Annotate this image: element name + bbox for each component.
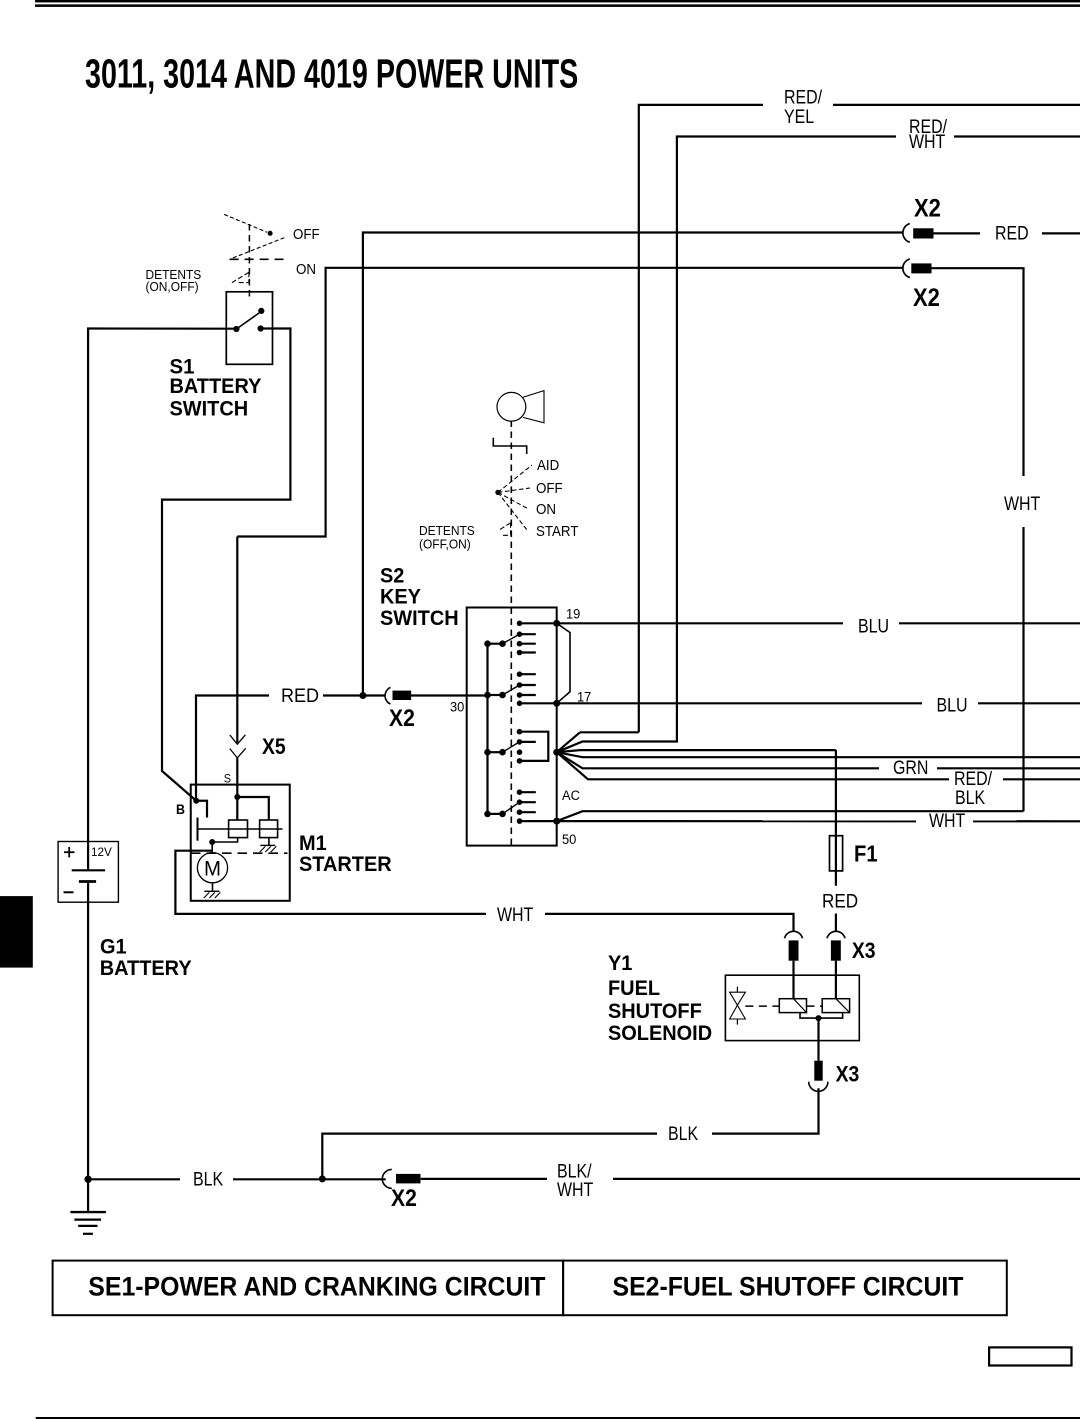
- node: RED junction: [359, 692, 366, 699]
- label BLK (bottom): [180, 1168, 233, 1190]
- page top double rule: [35, 0, 1080, 7]
- solenoid Y1 box: [725, 975, 859, 1040]
- label WHT (mid): [486, 904, 545, 926]
- wire: solenoid output U: [800, 1013, 843, 1019]
- svg-text:SWITCH: SWITCH: [380, 607, 459, 631]
- node: solenoid junction: [816, 1015, 822, 1021]
- node S: [234, 794, 240, 800]
- svg-text:X2: X2: [389, 705, 415, 732]
- wire: GRN: [557, 752, 1080, 768]
- node: 50 junction: [553, 818, 560, 825]
- wire: node to motor: [211, 842, 213, 852]
- node 19: [553, 620, 560, 627]
- key switch S2 box: [467, 608, 557, 846]
- S2 pins group 1: [517, 621, 536, 656]
- svg-text:X5: X5: [262, 735, 286, 759]
- label BLU (17): [922, 694, 978, 716]
- solenoid coil A: [779, 999, 806, 1013]
- S2 pins group 4: [517, 789, 536, 823]
- wire: coil1 to motor node: [212, 838, 237, 842]
- contact bus: [198, 828, 283, 830]
- svg-text:B: B: [176, 802, 185, 818]
- svg-text:AC: AC: [562, 788, 580, 804]
- label DETENTS (OFF,ON): [419, 524, 475, 552]
- svg-text:SE1-POWER AND CRANKING CIRCUIT: SE1-POWER AND CRANKING CIRCUIT: [88, 1273, 545, 1302]
- label M1 STARTER: [299, 832, 392, 877]
- wire: RED/YEL: [557, 105, 1080, 752]
- svg-text:G1: G1: [100, 935, 127, 959]
- svg-text:SHUTOFF: SHUTOFF: [608, 1000, 702, 1024]
- ground: [70, 1212, 106, 1234]
- S2 dashed stem: [510, 421, 512, 846]
- wire: RED mid to key switch 30: [196, 696, 488, 801]
- node: motor junction: [209, 839, 215, 845]
- label RED/WHT: [896, 116, 954, 153]
- connector X5 chevrons: [230, 735, 246, 758]
- node: BLK junction: [319, 1175, 326, 1182]
- wire: 50 diagonal riser: [557, 811, 1024, 821]
- connector X3 (right): [827, 931, 845, 960]
- wire: S to coils: [237, 797, 268, 820]
- fuse F1: [830, 836, 843, 871]
- wire: RED top right of X2: [934, 232, 1080, 234]
- wire: solenoid down to X3: [817, 1018, 819, 1061]
- S1 contacts: [233, 308, 264, 332]
- label GRN: [879, 757, 937, 779]
- connector X2 (RED top): [903, 224, 934, 243]
- svg-text:FUEL: FUEL: [608, 977, 660, 1001]
- svg-text:(OFF,ON): (OFF,ON): [419, 537, 471, 552]
- page bottom rule: [36, 1417, 1080, 1419]
- label BLK (solenoid): [657, 1123, 712, 1145]
- S2 detent fan: [495, 465, 532, 535]
- wire: 17/BLU: [520, 702, 1080, 704]
- wire: WHT right of X2 down right side: [931, 268, 1023, 811]
- contact plate: [197, 818, 199, 841]
- wire: RED top (to X2): [363, 233, 904, 696]
- black margin block: [0, 896, 33, 968]
- label WHT (right vertical): [1001, 476, 1045, 527]
- wire: BLK from X3 to bottom: [322, 1088, 818, 1179]
- svg-text:Y1: Y1: [608, 952, 632, 976]
- S1 detent icon: [224, 214, 284, 298]
- key switch S2 icon: [497, 391, 544, 423]
- label S2 KEY SWITCH: [380, 564, 459, 630]
- label BLU (19): [843, 615, 899, 637]
- wire: battery - to ground: [87, 882, 89, 1213]
- connector X2 (WHT top): [903, 259, 932, 278]
- svg-text:X2: X2: [914, 194, 941, 222]
- solenoid coil 1: [229, 820, 248, 838]
- label RED (top right): [980, 221, 1042, 244]
- label RED/YEL: [763, 86, 833, 127]
- wire: battery + feed to S1: [88, 329, 236, 871]
- wire: motor to chassis ground: [212, 883, 214, 892]
- wire: WHT starter return: [175, 851, 793, 932]
- svg-text:START: START: [536, 522, 579, 539]
- svg-text:X3: X3: [836, 1062, 860, 1086]
- svg-text:BATTERY: BATTERY: [100, 957, 192, 981]
- label WHT (50): [916, 810, 973, 832]
- wire: X3 right into solenoid: [835, 961, 837, 999]
- node: ground junction: [84, 1176, 91, 1183]
- chassis ground (motor): [204, 891, 221, 898]
- svg-text:WHT: WHT: [1004, 493, 1041, 515]
- bottom right small box: [989, 1347, 1071, 1365]
- wire: RED/BLK: [557, 752, 1080, 779]
- svg-text:GRN: GRN: [893, 757, 928, 779]
- label Y1 FUEL SHUTOFF SOLENOID: [608, 952, 712, 1046]
- wire: bottom BLK: [88, 1178, 1080, 1181]
- SE2 box: [563, 1261, 1007, 1316]
- svg-text:BLK: BLK: [193, 1168, 223, 1190]
- starter M1 box: [191, 785, 290, 901]
- starter internals: [191, 794, 288, 898]
- wire: X5 feed (WHT branch down to starter S): [236, 537, 238, 798]
- node B: [193, 798, 199, 804]
- svg-text:X2: X2: [913, 284, 940, 312]
- wire: F1 feed down: [835, 750, 837, 932]
- connector X2 (bottom): [382, 1169, 420, 1188]
- wire: RED/WHT: [557, 137, 1080, 753]
- svg-text:YEL: YEL: [784, 105, 814, 127]
- solenoid dashed link: [745, 1005, 822, 1007]
- svg-text:SWITCH: SWITCH: [170, 397, 249, 421]
- valve symbol: [730, 987, 746, 1025]
- svg-text:X2: X2: [391, 1185, 417, 1212]
- svg-text:ON: ON: [296, 260, 316, 277]
- svg-text:RED/: RED/: [784, 86, 822, 108]
- svg-text:BATTERY: BATTERY: [170, 374, 262, 398]
- svg-text:RED: RED: [822, 891, 858, 912]
- S2 contact pairs: [484, 634, 519, 817]
- connector X2 (mid): [385, 687, 411, 704]
- svg-text:WHT: WHT: [497, 904, 534, 926]
- wire: WHT (50): [520, 820, 1080, 822]
- connector X3 (left): [785, 931, 803, 960]
- wire: X3 left into solenoid: [792, 961, 794, 999]
- svg-text:AID: AID: [537, 456, 559, 473]
- svg-text:WHT: WHT: [557, 1179, 594, 1201]
- label RED (mid): [269, 685, 323, 707]
- label S1 BATTERY SWITCH: [170, 355, 262, 421]
- wire: S1 output to starter B: [162, 329, 290, 801]
- svg-text:50: 50: [562, 832, 576, 848]
- svg-text:BLK: BLK: [955, 787, 985, 809]
- svg-text:M: M: [204, 857, 221, 881]
- svg-text:RED: RED: [281, 685, 319, 707]
- svg-text:BLU: BLU: [937, 694, 968, 716]
- label DETENTS (ON,OFF): [146, 267, 202, 294]
- svg-text:F1: F1: [854, 840, 878, 867]
- svg-text:X3: X3: [852, 939, 876, 963]
- svg-text:30: 30: [450, 699, 464, 715]
- svg-text:RED: RED: [995, 222, 1029, 244]
- label BLK/WHT: [547, 1159, 613, 1200]
- svg-text:DETENTS: DETENTS: [419, 524, 475, 539]
- svg-text:WHT: WHT: [909, 131, 946, 153]
- svg-text:ON: ON: [536, 500, 556, 517]
- label RED/BLK: [949, 768, 1003, 809]
- wire: coil2 to chassis ground: [268, 838, 270, 846]
- wire: fan unlabeled: [557, 752, 1080, 757]
- S2 pins group 2: [517, 671, 536, 706]
- svg-text:(ON,OFF): (ON,OFF): [146, 280, 199, 295]
- U bracket pins 9-12: [520, 732, 549, 761]
- chassis ground (coil2): [260, 845, 277, 852]
- connector X3 (lower): [809, 1061, 828, 1092]
- label RED (fuse): [818, 888, 862, 912]
- S2 key bracket: [493, 438, 526, 454]
- svg-text:BLK: BLK: [668, 1123, 698, 1145]
- battery G1: [58, 842, 118, 903]
- wire: WHT top (to X2): [237, 268, 903, 537]
- svg-text:WHT: WHT: [929, 810, 966, 832]
- starter divider dashed: [191, 852, 288, 854]
- svg-text:BLU: BLU: [858, 615, 889, 637]
- battery switch S1 box: [226, 292, 272, 365]
- svg-text:KEY: KEY: [380, 585, 421, 609]
- wire: B hook: [196, 801, 207, 818]
- svg-text:19: 19: [566, 606, 580, 622]
- node: fan junction: [553, 749, 560, 756]
- bracket 19-17: [557, 623, 570, 703]
- svg-text:SOLENOID: SOLENOID: [608, 1022, 712, 1046]
- solenoid coil 2: [260, 820, 278, 838]
- S2 bus: [486, 644, 488, 814]
- motor circle: [197, 853, 227, 883]
- svg-text:12V: 12V: [91, 845, 112, 859]
- SE1 box: [53, 1261, 563, 1316]
- node 17: [553, 700, 560, 707]
- svg-text:SE2-FUEL SHUTOFF CIRCUIT: SE2-FUEL SHUTOFF CIRCUIT: [613, 1273, 964, 1302]
- svg-text:OFF: OFF: [293, 225, 320, 242]
- label G1 BATTERY: [100, 935, 192, 980]
- solenoid coil B: [822, 999, 849, 1013]
- svg-text:3011, 3014 AND 4019 POWER UNIT: 3011, 3014 AND 4019 POWER UNITS: [85, 52, 578, 97]
- wire: 19/BLU: [520, 622, 1080, 624]
- svg-text:OFF: OFF: [536, 479, 563, 496]
- svg-text:17: 17: [577, 689, 591, 705]
- S2 pins group 3: [517, 729, 549, 764]
- svg-text:STARTER: STARTER: [299, 853, 392, 877]
